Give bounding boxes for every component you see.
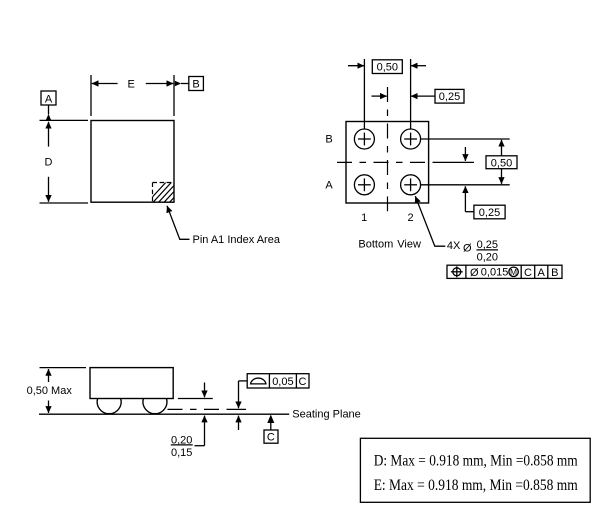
svg-text:0,20: 0,20 bbox=[477, 252, 498, 264]
svg-text:C: C bbox=[299, 376, 307, 388]
svg-text:0,25: 0,25 bbox=[477, 239, 498, 251]
svg-text:D: D bbox=[45, 157, 53, 169]
svg-text:0,50: 0,50 bbox=[491, 157, 512, 169]
svg-text:M: M bbox=[510, 267, 517, 277]
svg-text:Bottom View: Bottom View bbox=[358, 239, 421, 251]
svg-text:0,50 Max: 0,50 Max bbox=[27, 385, 73, 397]
svg-text:B: B bbox=[325, 134, 332, 146]
svg-text:2: 2 bbox=[407, 212, 413, 224]
svg-text:Pin A1 Index Area: Pin A1 Index Area bbox=[193, 234, 281, 246]
svg-text:E: E bbox=[128, 79, 135, 91]
svg-text:0,50: 0,50 bbox=[377, 62, 398, 74]
svg-text:B: B bbox=[551, 267, 558, 279]
svg-text:Ø: Ø bbox=[463, 243, 472, 255]
svg-text:A: A bbox=[538, 267, 546, 279]
svg-text:C: C bbox=[524, 267, 532, 279]
svg-text:0,05: 0,05 bbox=[272, 376, 293, 388]
svg-text:Seating Plane: Seating Plane bbox=[292, 409, 361, 421]
svg-text:4X: 4X bbox=[447, 240, 461, 252]
svg-text:D: Max = 0.918 mm, Min =0.858: D: Max = 0.918 mm, Min =0.858 mm bbox=[374, 453, 578, 470]
svg-text:0,25: 0,25 bbox=[439, 91, 460, 103]
svg-text:0,015: 0,015 bbox=[481, 267, 509, 279]
svg-text:B: B bbox=[192, 79, 199, 91]
svg-text:E: Max = 0.918 mm, Min =0.858: E: Max = 0.918 mm, Min =0.858 mm bbox=[374, 477, 578, 494]
svg-text:0,25: 0,25 bbox=[479, 207, 500, 219]
svg-text:0,15: 0,15 bbox=[171, 447, 192, 459]
svg-text:Ø: Ø bbox=[470, 267, 479, 279]
svg-text:A: A bbox=[45, 94, 53, 106]
svg-text:C: C bbox=[267, 432, 275, 444]
svg-text:1: 1 bbox=[361, 212, 367, 224]
svg-text:A: A bbox=[325, 180, 333, 192]
